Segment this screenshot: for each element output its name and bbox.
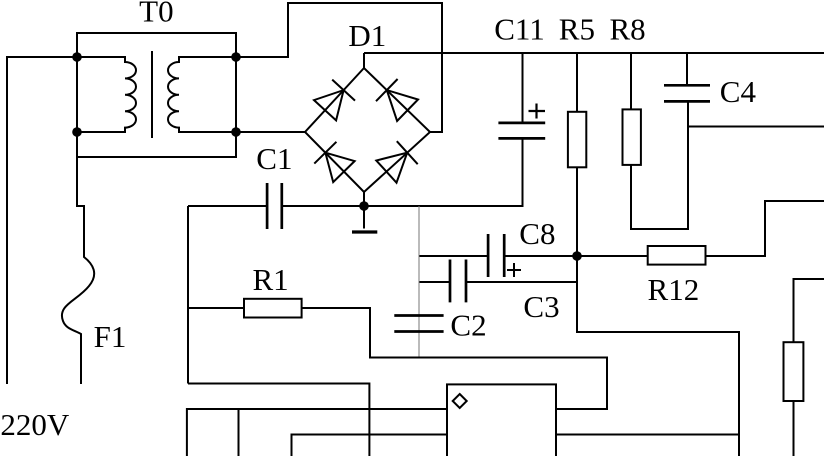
wire: junction down and right to bottom edge: [577, 256, 739, 456]
svg-text:R8: R8: [610, 11, 646, 46]
node: transformer left-top junction: [72, 52, 82, 62]
wire: thin C2 branch: [418, 206, 420, 358]
diode D1c bottom-left: [325, 153, 354, 182]
svg-text:C2: C2: [450, 308, 486, 343]
capacitor C11 (electrolytic): [498, 123, 545, 138]
resistor R1: [188, 308, 607, 409]
diode D1d bottom-right: [376, 153, 407, 183]
wire: secondary bottom to bridge left vertex: [236, 131, 305, 133]
wire: rail y206 from C1 to C11 bottom: [282, 138, 523, 206]
transformer T0 core: [151, 51, 153, 138]
svg-text:R12: R12: [648, 272, 700, 307]
transformer T0 secondary coil: [168, 57, 236, 132]
IC U1 diamond mark: [453, 394, 467, 408]
fuse F1 wire and body: [62, 132, 94, 384]
transformer T0 frame: [77, 33, 236, 157]
wire: IC right pin 2: [556, 434, 739, 436]
svg-text:R5: R5: [559, 11, 595, 46]
diode D1b top-right: [387, 90, 418, 121]
capacitor C4: [686, 53, 688, 85]
svg-text:C8: C8: [519, 216, 555, 251]
wire: rail y206 left of C1: [188, 205, 267, 207]
wire: bridge top vertex riser to +rail: [363, 53, 365, 68]
wire: top +rail: [364, 52, 824, 54]
transformer T0 primary coil: [77, 57, 136, 132]
node: C8/R5/R12 junction: [572, 251, 582, 261]
wire: IC left pin 2: [292, 435, 448, 456]
capacitor C1: [267, 183, 282, 229]
svg-text:T0: T0: [139, 0, 173, 29]
svg-text:C3: C3: [523, 289, 559, 324]
node: transformer left-bottom junction: [72, 127, 82, 137]
resistor R8: [631, 53, 688, 229]
ground: [363, 206, 365, 229]
svg-text:R1: R1: [253, 262, 289, 297]
wire: IC left pin 1: [187, 409, 447, 456]
capacitor C2: [394, 316, 443, 332]
wire: C4/R8 node to right edge: [688, 126, 824, 128]
svg-text:C1: C1: [256, 141, 292, 176]
svg-text:C4: C4: [720, 74, 757, 109]
wire: bridge bottom vertex to ground node: [363, 192, 365, 206]
IC U1 box: [447, 384, 556, 456]
wire: lower-left loop to bottom edge: [188, 384, 369, 456]
C8 plus sign: [507, 263, 521, 277]
bridge rectifier D1 diamond: [305, 68, 430, 192]
node: bridge bottom junction: [359, 201, 369, 211]
C11 plus sign: [529, 104, 546, 119]
wire: C1 left vertical: [187, 206, 189, 384]
capacitor C3: [419, 281, 450, 283]
svg-text:220V: 220V: [0, 407, 70, 442]
resistor R-bottom-right: [794, 279, 824, 456]
node: transformer right-bottom junction: [231, 127, 241, 137]
diode D1a top-left: [314, 90, 344, 120]
svg-text:C11: C11: [494, 11, 545, 46]
svg-text:D1: D1: [348, 18, 386, 53]
wire: secondary top to bridge right vertex: [236, 3, 442, 132]
wire: left AC terminal vertical: [7, 57, 77, 384]
resistor R12: [577, 201, 824, 256]
capacitor C8 (electrolytic): [419, 255, 488, 257]
node: transformer right-top junction: [231, 52, 241, 62]
svg-text:F1: F1: [94, 319, 127, 354]
wire: C11 top to rail: [522, 53, 524, 123]
resistor R5: [576, 53, 578, 256]
wire: IC pin stub: [238, 409, 240, 456]
